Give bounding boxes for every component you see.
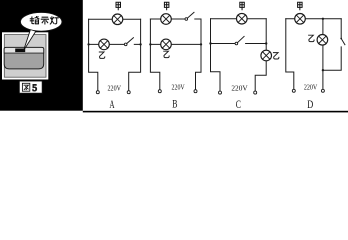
bottom rule line — [83, 111, 348, 113]
label 乙 circuit D — [309, 35, 315, 41]
svg-text:A: A — [109, 97, 114, 111]
label 乙 circuit B — [164, 51, 170, 57]
lamp 乙 circuit B — [161, 39, 172, 50]
label 甲 circuit B — [164, 2, 169, 10]
wire C left edge with jog — [211, 19, 221, 91]
switch circuit C — [235, 36, 244, 44]
svg-text:D: D — [307, 97, 313, 111]
lamp 甲 circuit B — [161, 14, 172, 25]
svg-text:B: B — [172, 97, 177, 111]
label 乙 circuit C — [273, 53, 279, 59]
junction dot C right — [265, 42, 267, 44]
wire D left edge with jog — [286, 19, 294, 89]
terminal D left — [292, 89, 295, 92]
junction dot B right — [200, 43, 202, 45]
lamp 乙 circuit D — [317, 35, 328, 46]
svg-text:220V: 220V — [231, 84, 248, 93]
glyph 指 — [30, 17, 33, 24]
photo white frame — [2, 32, 48, 79]
label 甲 circuit C — [240, 2, 245, 10]
svg-text:220V: 220V — [172, 82, 186, 91]
lamp 甲 circuit C — [237, 13, 248, 24]
junction dot D top — [322, 18, 324, 20]
junction dot B left — [149, 43, 151, 45]
glyph 灯 — [50, 17, 54, 24]
label 甲 circuit A — [116, 2, 121, 10]
terminal A left — [96, 91, 99, 94]
svg-text:5: 5 — [32, 84, 37, 94]
appliance top band — [4, 47, 44, 53]
wire A left edge with jog to terminal — [89, 19, 98, 90]
switch circuit D — [340, 38, 345, 45]
callout bubble — [20, 12, 62, 31]
appliance body — [4, 47, 44, 69]
wire A middle branch — [89, 43, 141, 45]
switch circuit A — [124, 38, 133, 46]
wire B top — [150, 18, 201, 20]
terminal A right — [127, 91, 130, 94]
bubble text 指示灯 (drawn glyphs) — [30, 17, 58, 24]
appliance indicator slot — [15, 49, 25, 53]
图5 label box — [19, 81, 42, 93]
terminal C right — [254, 91, 257, 94]
junction dot A right — [139, 43, 141, 45]
junction dot C left — [209, 42, 211, 44]
switch circuit B — [185, 12, 194, 20]
photo black background block — [0, 0, 83, 111]
terminal B right — [194, 90, 197, 93]
wire D right edge upper — [340, 19, 342, 38]
junction dot A left — [87, 43, 89, 45]
wire A top — [89, 18, 141, 20]
lamp 甲 circuit A — [112, 14, 123, 25]
lamp 乙 circuit C — [261, 50, 272, 61]
glyph 图 — [22, 83, 29, 91]
wire B right edge with jog — [196, 19, 202, 90]
label 甲 circuit D — [298, 2, 303, 10]
wire B left edge with jog — [150, 19, 159, 90]
wire C right edge through lamp and jog — [255, 19, 266, 91]
terminal D right — [321, 89, 324, 92]
wire A right edge with jog to terminal — [129, 19, 141, 90]
glyph 示 — [41, 17, 48, 24]
wire C middle branch — [211, 43, 267, 45]
wire D top — [286, 18, 341, 20]
photo grey interior — [4, 35, 46, 78]
svg-text:220V: 220V — [108, 83, 122, 92]
lamp 乙 circuit A — [99, 39, 110, 50]
wire B middle branch — [150, 43, 201, 45]
svg-text:C: C — [236, 97, 241, 111]
lamp 甲 circuit D — [295, 13, 306, 24]
wire D right edge lower joining branch — [323, 47, 341, 70]
terminal B left — [158, 90, 161, 93]
wire D lamp-branch vertical — [322, 19, 324, 89]
terminal C left — [219, 91, 222, 94]
svg-text:220V: 220V — [304, 83, 318, 92]
junction dot D bottom — [322, 69, 324, 71]
label 乙 circuit A — [99, 52, 105, 58]
bubble tail — [24, 30, 36, 50]
wire C top — [211, 18, 267, 20]
